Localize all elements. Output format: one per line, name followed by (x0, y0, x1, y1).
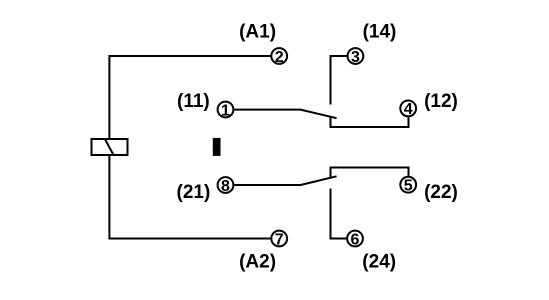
wire NC contact 22: stub, across, down to terminal 5 (331, 168, 409, 178)
terminal 2 (271, 48, 287, 66)
terminal 3 (348, 48, 364, 66)
svg-text:(12): (12) (424, 91, 458, 112)
terminal 6 (347, 231, 363, 249)
switch arm 21: from terminal 8 to NC contact (234, 176, 336, 185)
wire NO contact 24: terminal 6 left then up (open gap) (331, 189, 347, 239)
svg-text:7: 7 (275, 231, 284, 248)
svg-text:(14): (14) (363, 22, 397, 43)
svg-text:(22): (22) (424, 182, 458, 203)
svg-text:8: 8 (221, 178, 230, 195)
coil K1 slash (105, 139, 114, 155)
svg-text:4: 4 (404, 101, 413, 118)
terminal 8 (218, 177, 234, 195)
mechanical link bar (213, 138, 221, 156)
svg-text:6: 6 (351, 231, 360, 248)
svg-text:(21): (21) (177, 182, 211, 203)
svg-text:(11): (11) (177, 91, 210, 112)
terminal 7 (271, 231, 287, 249)
svg-text:(A2): (A2) (239, 252, 276, 273)
svg-text:3: 3 (351, 49, 360, 66)
terminal 4 (400, 101, 416, 119)
terminal 5 (400, 177, 416, 195)
switch arm 11: from terminal 1 to NC contact (234, 110, 336, 119)
wire A2 feed: coil bottom down to corner, right to terminal 7 (109, 155, 270, 239)
svg-text:1: 1 (221, 102, 230, 119)
svg-text:(24): (24) (362, 252, 396, 273)
wire A1 feed: terminal 2 left to corner, down to coil top (109, 56, 270, 139)
svg-text:(A1): (A1) (239, 22, 276, 43)
wire NC contact 12: stub, across, up to terminal 4 (331, 117, 409, 127)
terminal 1 (218, 102, 234, 120)
svg-text:5: 5 (404, 178, 413, 195)
wire NO contact 14: terminal 3 left then down (open gap) (331, 56, 347, 105)
coil K1 rectangle (92, 139, 128, 155)
svg-text:2: 2 (275, 49, 284, 66)
